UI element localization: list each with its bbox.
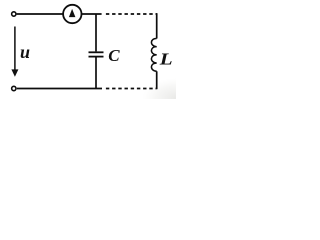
capacitor C plates (89, 52, 104, 56)
terminal top-left (12, 12, 16, 16)
wire bottom-right dashed (106, 88, 157, 90)
wire top-right dashed (106, 13, 157, 15)
inductor L (151, 38, 156, 71)
svg-text:L: L (159, 50, 173, 69)
wire top-left (17, 13, 63, 15)
svg-text:u: u (20, 42, 30, 62)
wire right vertical bottom (156, 71, 158, 89)
terminal bottom-left (12, 86, 16, 90)
wire bottom (17, 88, 102, 90)
ammeter U1 (63, 5, 81, 23)
capacitor C bottom lead (95, 58, 97, 90)
wire top-middle (82, 13, 102, 15)
voltage arrow u (11, 27, 18, 77)
wire right vertical top (156, 13, 158, 38)
capacitor C top lead (95, 14, 97, 51)
svg-text:C: C (108, 46, 120, 65)
